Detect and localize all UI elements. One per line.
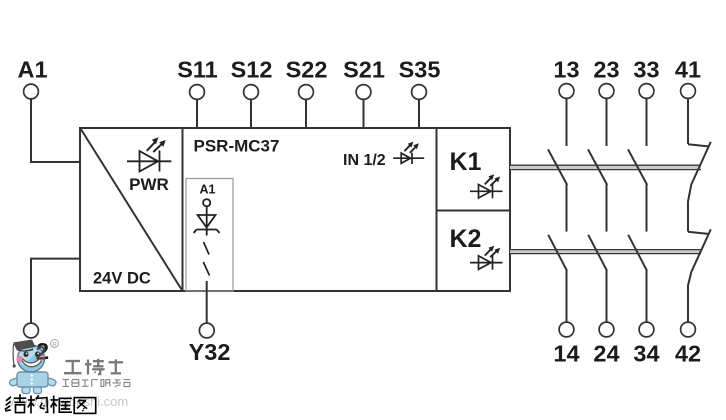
watermark logo robot [10,340,56,394]
svg-text:2: 2 [36,342,47,364]
svg-text:IN 1/2: IN 1/2 [343,152,386,169]
wire to terminal 34 [646,271,648,324]
power section diagonal [81,129,183,292]
wire A2 to module [31,259,80,323]
K1/K2 divider [437,210,511,212]
relay section divider [436,128,438,291]
wire to terminal 24 [606,271,608,324]
contact 24 blade K2 [588,235,607,271]
svg-text:R: R [52,341,57,348]
svg-text:34: 34 [633,341,659,367]
contact 34 blade K2 [628,235,647,271]
wire 41-42 mid [687,201,689,232]
watermark title jiegou kuangtu (black) [5,394,96,413]
svg-text:S22: S22 [286,57,328,83]
svg-text:14: 14 [553,341,579,367]
svg-text:42: 42 [675,341,701,367]
svg-text:33: 33 [633,57,659,83]
wire 13-14 mid [566,185,568,232]
module outline PSR-MC37 [80,128,510,291]
wire 33-34 mid [646,185,648,232]
svg-text:PWR: PWR [129,175,169,194]
svg-text:S21: S21 [343,57,385,83]
contact 23/24 blade K1 [588,149,607,185]
svg-text:24V DC: 24V DC [93,270,151,288]
contact 42 seat K2 [688,232,709,234]
svg-text:S12: S12 [231,57,273,83]
wire 23-24 mid [606,185,608,232]
contact 14 blade K2 [548,235,567,271]
terminal 24 [599,322,614,337]
wire A1 to module [31,99,80,162]
svg-text:S11: S11 [177,57,218,83]
wire to terminal 14 [566,271,568,324]
switch dash 2 [203,262,209,276]
svg-text:24: 24 [593,341,619,367]
terminal 14 [559,322,574,337]
svg-text:Y32: Y32 [189,339,231,365]
svg-text:K2: K2 [450,225,482,253]
wire to terminal 42 [687,285,689,323]
LED K2 [470,249,503,270]
power section divider [182,128,184,291]
terminal 42 [681,322,696,337]
LED K1 [470,178,503,199]
svg-text:K1: K1 [450,148,482,176]
LED PWR [127,142,171,171]
svg-text:13: 13 [553,57,579,83]
linkage K1 [510,165,701,169]
contact 41/42 blade K1 [688,142,711,202]
wire below diode [206,230,208,236]
svg-text:S35: S35 [399,57,441,83]
svg-text:41: 41 [675,57,701,83]
wire to Y32 [206,281,208,323]
contact 33/34 blade K1 [628,149,647,185]
suppressor diode [194,215,220,233]
watermark subtitle zhineng gongchang fuwushang [63,380,131,387]
wire node to diode [206,206,208,229]
switch dash 1 [204,242,210,255]
terminal 34 [639,322,654,337]
svg-text:A1: A1 [200,183,216,197]
contact 41/42 seat K1 [688,144,709,146]
watermark text gong bo shi [64,359,123,375]
LED IN1/2 [393,145,424,164]
inner control box [186,179,233,292]
linkage K2 [510,250,701,254]
terminal Y32 [199,323,214,338]
svg-text:23: 23 [593,57,619,83]
contact 13/14 blade K1 [548,149,567,185]
registered mark [51,340,59,348]
contact 42 blade K2 [688,229,711,285]
svg-text:A1: A1 [17,57,47,83]
svg-text:PSR-MC37: PSR-MC37 [194,137,280,156]
control node circle [203,199,210,206]
